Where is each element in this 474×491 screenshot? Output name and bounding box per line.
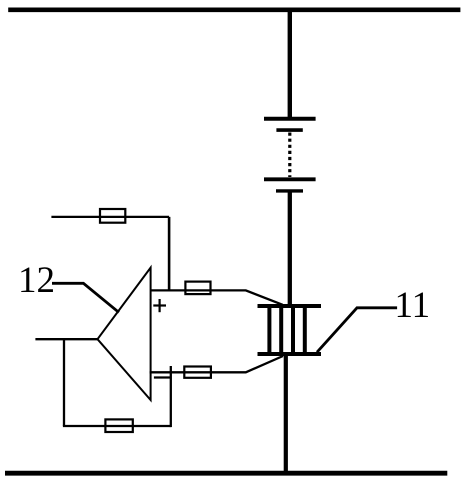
wire: feedback left vertical — [63, 339, 65, 426]
svg-text:12: 12 — [18, 260, 55, 301]
wire: noninverting (+) input to transducer top plate — [150, 290, 283, 304]
transducer 11 stack bars — [269, 306, 304, 354]
leader line for label 12 — [52, 283, 119, 312]
resistor (feedback) — [105, 419, 132, 432]
wire: battery to transducer top plate — [288, 191, 292, 306]
resistor (noninverting input) — [185, 282, 210, 295]
op-amp plus input marker — [153, 299, 166, 312]
wire: feedback bottom horizontal — [63, 425, 171, 427]
battery BT1 dotted continuation — [288, 133, 291, 178]
resistor (inverting input) — [184, 367, 211, 378]
wire: drop from top-left resistor to noninverting input — [168, 217, 171, 291]
battery BT1 short plate (top cell -) — [276, 128, 302, 132]
transducer 11 top plate — [258, 304, 322, 308]
top supply rail — [8, 8, 460, 13]
op-amp 12 triangle — [98, 268, 151, 400]
resistor (top-left) — [100, 209, 125, 223]
op-amp minus input marker — [154, 376, 171, 378]
battery BT1 long plate (top cell +) — [264, 117, 316, 121]
leader line for label 11 — [317, 308, 397, 352]
battery BT1 short plate (bottom cell -) — [276, 189, 303, 192]
bottom supply rail — [5, 471, 447, 476]
wire: feedback right vertical to inverting input — [170, 366, 172, 427]
wire: inverting (-) input to transducer bottom plate — [150, 356, 283, 372]
battery BT1 long plate (bottom cell +) — [264, 177, 316, 181]
svg-text:11: 11 — [395, 285, 431, 326]
wire: transducer bottom plate to bottom rail — [284, 354, 288, 473]
wire: top rail to battery — [288, 9, 292, 119]
transducer 11 bottom plate — [258, 352, 322, 356]
wire: amplifier output — [35, 338, 98, 340]
wire: top-left input wire — [51, 216, 169, 218]
